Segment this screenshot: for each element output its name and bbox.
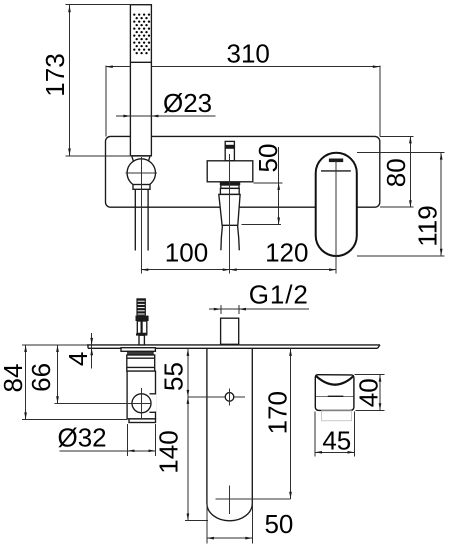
holder lower bracket	[133, 185, 150, 190]
holder clamp circle	[132, 394, 151, 413]
aerator horizontal / 170 ext	[215, 498, 290, 500]
lever handle side: knob top piece	[315, 375, 354, 397]
66 ext / circle crosshair horizontal	[55, 402, 152, 404]
svg-text:140: 140	[154, 430, 184, 473]
handle centerline	[335, 161, 337, 274]
wall plate edge bottom line	[88, 347, 378, 349]
diverter ring 1	[221, 185, 239, 188]
dim 50 ext lower	[242, 224, 281, 226]
holder ring circle	[127, 159, 155, 187]
svg-text:173: 173	[40, 53, 70, 96]
dim 310 line	[106, 66, 131, 68]
wall plate front	[106, 136, 380, 207]
set screw vertical	[229, 389, 231, 406]
G1/2 nipple	[221, 318, 239, 344]
holder crosshair horizontal	[126, 172, 158, 174]
dim 170 line	[290, 349, 292, 499]
dim 310 ext right	[379, 66, 381, 137]
dim 40 line	[379, 375, 381, 411]
dim 100/120 line	[141, 269, 336, 271]
diverter knob	[225, 141, 234, 160]
set screw circle	[225, 393, 234, 402]
dim 84 ext bottom	[22, 418, 127, 420]
dim 140 ext bottom	[185, 520, 208, 522]
svg-text:80: 80	[381, 158, 411, 187]
holder gasket	[128, 351, 154, 355]
dim 45 ext lines	[314, 412, 316, 457]
handshower wand	[130, 5, 151, 156]
hose connector foot band	[136, 333, 147, 335]
svg-text:55: 55	[159, 362, 189, 391]
svg-text:45: 45	[322, 426, 351, 456]
handle indicator tick	[329, 159, 343, 163]
holder body side	[127, 371, 155, 419]
diverter gasket band	[220, 182, 240, 185]
dim 84 line	[25, 345, 27, 419]
handle inner line	[321, 170, 351, 172]
dim 119 line	[440, 153, 442, 256]
svg-text:50: 50	[253, 144, 283, 173]
diverter cone	[219, 194, 240, 225]
svg-text:66: 66	[26, 363, 56, 392]
plate edge left cap	[87, 345, 89, 348]
diverter ring 2	[220, 188, 239, 194]
svg-text:4: 4	[63, 352, 93, 366]
svg-text:84: 84	[0, 364, 28, 393]
knob dished top arc	[316, 376, 353, 384]
diverter knob black band	[225, 145, 235, 149]
dim 55/140 line	[187, 349, 189, 521]
plate top extension to 80-dim	[380, 135, 414, 137]
lever handle oval	[316, 153, 357, 256]
G1/2 dim ticks	[220, 305, 222, 314]
diverter hose curve left	[221, 226, 223, 251]
hose left line	[134, 189, 136, 250]
svg-text:119: 119	[413, 205, 443, 246]
dim 50 ext upper	[254, 182, 283, 184]
diverter hose curve right	[238, 226, 240, 251]
dim 119 ext bottom	[357, 255, 445, 257]
dim 80 line	[409, 136, 411, 207]
hose connector stem	[139, 335, 144, 345]
holder circle vertical crosshair	[141, 388, 143, 419]
svg-text:G1/2: G1/2	[249, 280, 309, 310]
dim 66 line	[57, 345, 59, 403]
dim 40 ext lines	[355, 374, 385, 376]
aerator vertical	[229, 486, 231, 515]
handle neck ghost	[322, 411, 352, 421]
holder centerline	[140, 157, 142, 274]
diverter centerline	[229, 154, 231, 274]
spray face dots	[133, 13, 150, 54]
holder notch	[150, 395, 157, 412]
svg-text:100: 100	[165, 238, 208, 268]
svg-text:40: 40	[353, 378, 383, 407]
svg-text:170: 170	[262, 391, 292, 434]
hose right line	[147, 189, 149, 250]
dim 173 ext bottom	[66, 155, 132, 157]
holder ring section	[127, 355, 155, 371]
handle base side	[315, 397, 354, 410]
hose connector nut band	[136, 316, 149, 321]
holder flange side	[121, 348, 155, 352]
dim 4 line	[91, 333, 93, 369]
svg-text:Ø32: Ø32	[58, 423, 107, 453]
dim 50 bottom line	[207, 537, 252, 539]
spout side profile	[207, 348, 252, 521]
holder bottom cap	[129, 419, 156, 423]
dim 173 line	[69, 5, 71, 155]
svg-text:50: 50	[264, 509, 293, 539]
wand head joint line	[130, 61, 151, 63]
dim 50 top-view line	[278, 147, 280, 225]
holder bracket top	[132, 156, 150, 162]
knob seam	[315, 396, 354, 398]
dim Ø23 line	[116, 115, 216, 117]
dim 50 bottom ext lines	[206, 503, 208, 543]
dim 310 ext left	[105, 66, 107, 137]
diverter body	[207, 161, 253, 182]
set screw crosshair horizontal / 55 ext	[188, 396, 245, 398]
hose connector cylinder	[137, 321, 147, 333]
dim Ø32 ext lines	[127, 424, 129, 456]
wall plate edge top line + extension	[22, 344, 87, 346]
svg-text:120: 120	[265, 238, 308, 268]
knob seam black segment	[328, 396, 344, 398]
plate edge right bevel	[378, 345, 381, 348]
G1/2 dim line	[209, 308, 309, 310]
dim 173 ext top	[66, 4, 131, 6]
hose connector centerline	[141, 321, 143, 333]
hose connector knurled top	[136, 298, 146, 315]
dim 45 line	[315, 451, 355, 453]
dim 119 ext top	[357, 152, 445, 154]
svg-text:310: 310	[227, 39, 270, 69]
plate bottom extension to 80-dim	[380, 206, 414, 208]
svg-text:Ø23: Ø23	[163, 88, 212, 118]
dim Ø32 line	[59, 450, 156, 452]
